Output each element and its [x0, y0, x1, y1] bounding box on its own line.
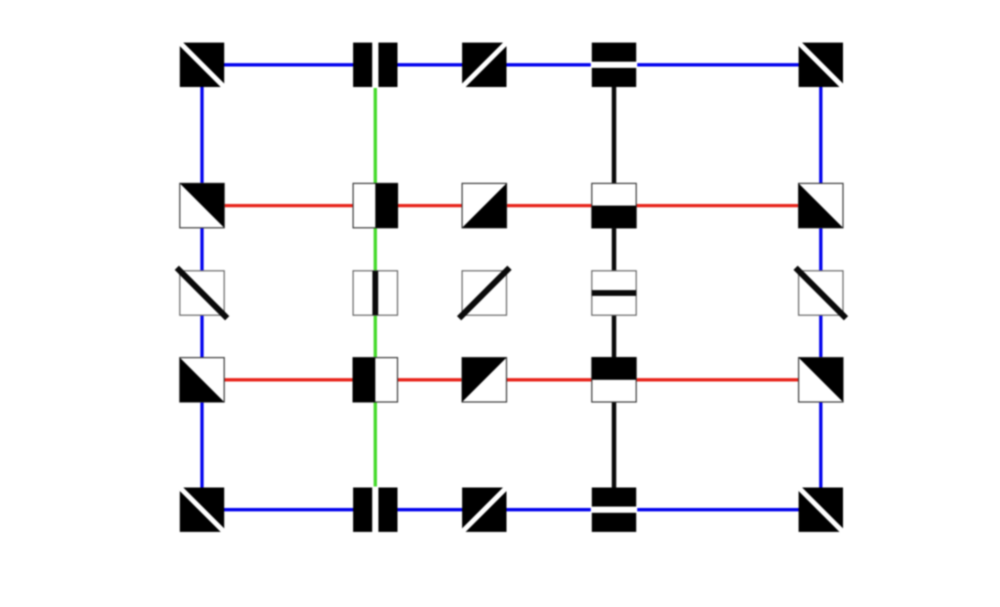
- node (4,2): square, black left half: [353, 358, 398, 402]
- node (3,5): outlined square with thick TL-BR diagonal line: [796, 268, 846, 318]
- node (2,1): square, black top-right triangle: [180, 183, 224, 227]
- node (2,5): square, black bottom-left triangle: [799, 183, 843, 227]
- node (2,3): square, black bottom-right triangle: [462, 183, 506, 227]
- node (1,5): black square with white TL-BR diagonal stripe: [797, 41, 844, 88]
- node (1,3): black square with white BL-TR diagonal stripe: [461, 41, 508, 88]
- node (3,4): outlined square with thick horizontal line: [592, 271, 636, 315]
- wire: red horizontal edge row 4: [202, 378, 821, 381]
- node (1,4): black square with white horizontal stripe: [591, 43, 637, 87]
- node (3,2): outlined square with thick vertical line: [353, 271, 397, 315]
- wire: green vertical edge column 2: [374, 65, 377, 510]
- node (5,1): black square with white TL-BR diagonal stripe: [178, 486, 225, 533]
- wire: blue horizontal edge row 5 (bottom): [202, 508, 821, 511]
- wire: black vertical edge column 4: [612, 65, 617, 510]
- node (2,4): square, black bottom half: [592, 183, 636, 228]
- node (3,3): outlined square with thick BL-TR diagonal line: [459, 268, 509, 318]
- node (5,3): black square with white BL-TR diagonal stripe: [461, 486, 508, 533]
- node (5,4): black square with white horizontal stripe: [591, 488, 637, 532]
- node (1,2): black square with white vertical stripe: [353, 42, 397, 88]
- node (4,1): square, black bottom-left triangle: [180, 358, 224, 402]
- wire: blue vertical edge column 1 (left): [200, 65, 203, 510]
- node (5,5): black square with white TL-BR diagonal stripe: [797, 486, 844, 533]
- node (4,3): square, black top-left triangle: [462, 358, 506, 402]
- node (1,1): black square with white TL-BR diagonal stripe: [178, 41, 225, 88]
- node (4,4): square, black top half: [592, 357, 636, 402]
- wire: red horizontal edge row 2: [202, 204, 821, 207]
- node (2,2): square, black right half: [353, 183, 398, 227]
- wire: blue vertical edge column 5 (right): [819, 65, 822, 510]
- wire: blue horizontal edge row 1 (top): [202, 63, 821, 66]
- node (3,1): outlined square with thick TL-BR diagonal line: [177, 268, 227, 318]
- node (4,5): square, black top-right triangle: [799, 358, 843, 402]
- node (5,2): black square with white vertical stripe: [353, 487, 397, 533]
